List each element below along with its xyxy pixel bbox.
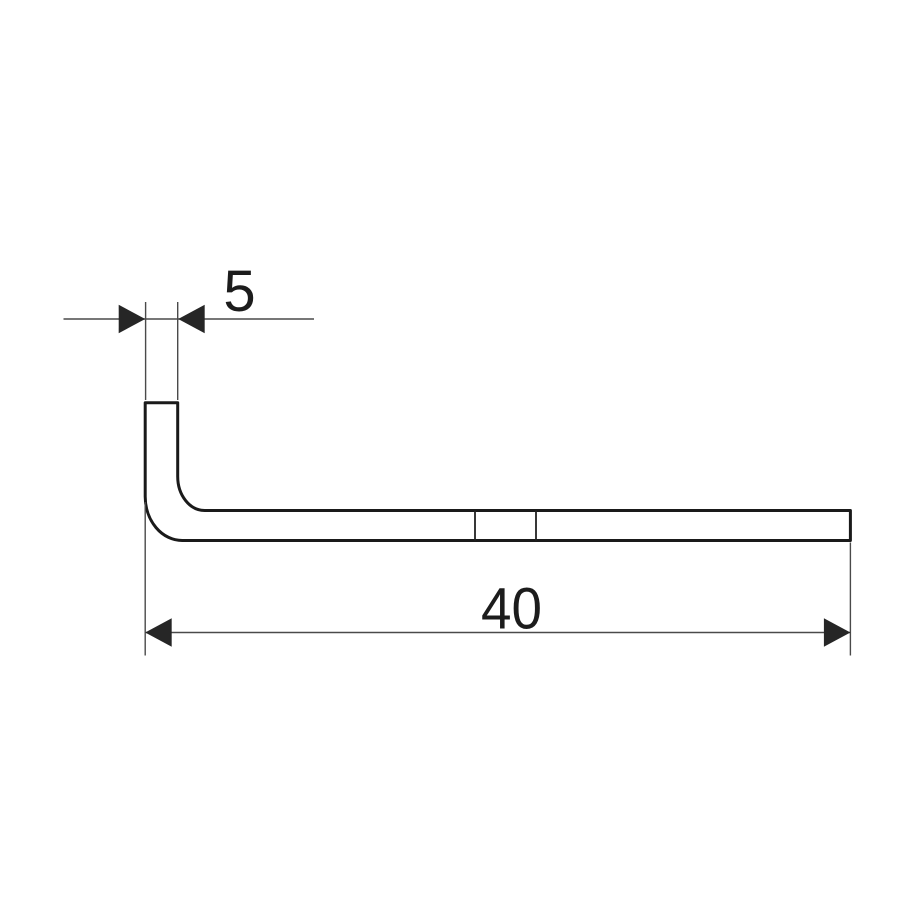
L-profile outline	[145, 403, 850, 541]
arrowhead left of dimension 5	[119, 305, 146, 333]
arrowhead right of dimension 40	[824, 618, 851, 646]
arrowhead left of dimension 40	[145, 618, 172, 646]
extension line right of dimension 5	[177, 302, 179, 400]
dimension line 40	[146, 632, 850, 634]
svg-text:40: 40	[481, 577, 542, 642]
break mark line 1 on profile	[474, 511, 476, 541]
dimension line 5	[64, 318, 315, 320]
arrowhead right of dimension 5	[178, 305, 205, 333]
break mark line 2 on profile	[535, 511, 537, 541]
extension line right of dimension 40	[849, 543, 851, 656]
extension line left of dimension 5	[145, 302, 147, 400]
svg-text:5: 5	[223, 259, 255, 324]
extension line left of dimension 40	[144, 502, 146, 656]
